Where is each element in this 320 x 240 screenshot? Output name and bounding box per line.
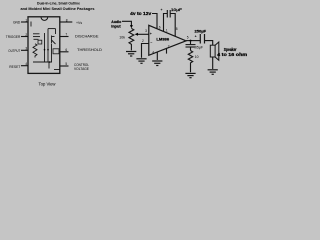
pin 5 stub [60,65,69,67]
svg-text:+: + [161,8,163,12]
pin 1 stub [21,21,28,23]
output wire pin 5 [186,40,200,42]
svg-text:LM386: LM386 [156,38,169,42]
svg-text:3: 3 [145,29,147,33]
internal junction dot B [47,49,49,51]
svg-text:+Vs: +Vs [76,21,82,25]
pin 7 stub [60,36,69,38]
svg-text:+: + [150,32,152,36]
wire C3 to R2 [190,47,192,51]
internal resistor bars [33,34,40,40]
svg-text:RESET: RESET [9,65,20,69]
pin 4 stub [21,65,28,67]
zobel branch wire [190,41,192,45]
svg-text:GND: GND [13,20,21,24]
potentiometer wiper arrow [137,33,148,35]
internal wire stub [55,29,57,34]
pin 3 stub [21,49,28,51]
capacitor C1 right lead (pin 8) [170,14,175,37]
svg-text:10μF: 10μF [171,8,183,12]
IC index notch [41,17,48,20]
internal junction dot A [44,49,46,51]
svg-text:TRIGGER: TRIGGER [6,35,21,39]
svg-text:7: 7 [168,45,170,49]
capacitor C1 10uF left lead (pin 1) [164,14,168,32]
svg-text:250μF: 250μF [195,30,207,34]
internal wire below bottom wire [48,62,50,69]
svg-text:6: 6 [65,48,67,52]
svg-text:6: 6 [159,25,161,29]
internal top wire [48,28,56,30]
svg-text:7: 7 [65,33,67,37]
ground at pin 4 [152,61,162,66]
svg-text:Top View: Top View [39,82,57,87]
internal wire vertical C [51,44,53,62]
ground under zobel [185,73,195,77]
internal transistor Q [52,36,56,45]
internal wire vertical B [47,29,49,62]
internal junction dot C [49,61,51,63]
IC U1 package outline (555 timer, top view) [28,17,60,74]
input arrow wire [122,21,131,25]
pin 4 wire [156,52,158,60]
ground under speaker [208,70,218,75]
ground under potentiometer [126,52,136,57]
speaker LS1 [210,42,219,60]
pin 6 stub [60,51,69,53]
op-amp U2 LM386 triangle [149,25,186,55]
internal resistor R (zigzag) [33,44,37,58]
svg-text:4: 4 [152,50,154,54]
svg-text:DISCHARGE: DISCHARGE [75,35,99,39]
svg-text:10: 10 [195,55,199,59]
svg-text:.05μF: .05μF [194,45,203,49]
svg-text:+: + [195,35,197,39]
capacitor C2 250uF plates [199,34,201,44]
svg-text:Input: Input [111,24,121,29]
potentiometer R1 10k (zigzag) [129,28,134,50]
supply wire to pin 6 [152,14,157,30]
svg-text:5: 5 [65,62,67,66]
internal comparator box [38,40,42,44]
pin 2 stub [21,36,28,38]
wire capacitor C2 to speaker [205,41,213,46]
svg-text:5: 5 [187,35,189,39]
svg-text:10k: 10k [119,35,125,39]
svg-text:8: 8 [176,27,178,31]
svg-text:2: 2 [25,33,27,37]
internal bottom wire [33,61,52,63]
svg-text:THRESHOLD: THRESHOLD [77,48,103,52]
svg-text:and Molded Mini Small Outline: and Molded Mini Small Outline Packages [21,6,96,11]
svg-text:1: 1 [166,29,168,33]
ground at pin 2 [136,59,146,64]
svg-text:8: 8 [66,18,68,22]
internal wire vertical A [44,33,46,62]
capacitor C1 plates [166,10,168,18]
pin 8 stub [60,21,73,23]
svg-text:4 to 16 ohm: 4 to 16 ohm [217,52,247,57]
speaker ground wire [212,57,214,69]
internal wire to pin 5 [54,69,60,71]
capacitor C3 .05uF plates [186,44,196,46]
svg-text:−: − [150,41,152,45]
svg-text:4: 4 [25,62,27,66]
input arrowhead [130,25,133,28]
svg-text:1: 1 [25,18,27,22]
svg-text:OUTPUT: OUTPUT [8,49,20,53]
svg-text:2: 2 [142,39,144,43]
internal flip-flop box [53,49,59,54]
resistor R2 10 ohm (zigzag) [188,51,192,73]
pin 2 wire [142,44,149,58]
svg-text:4v to 12v: 4v to 12v [130,11,152,16]
pin 7 stub (amp, unconnected bypass) [166,49,168,54]
svg-text:3: 3 [25,47,27,51]
output junction dot [190,40,192,42]
internal wire from pin 1 [30,22,32,27]
svg-text:VOLTAGE: VOLTAGE [74,67,90,71]
svg-text:Dual-In-Line, Small Outline: Dual-In-Line, Small Outline [37,1,81,6]
